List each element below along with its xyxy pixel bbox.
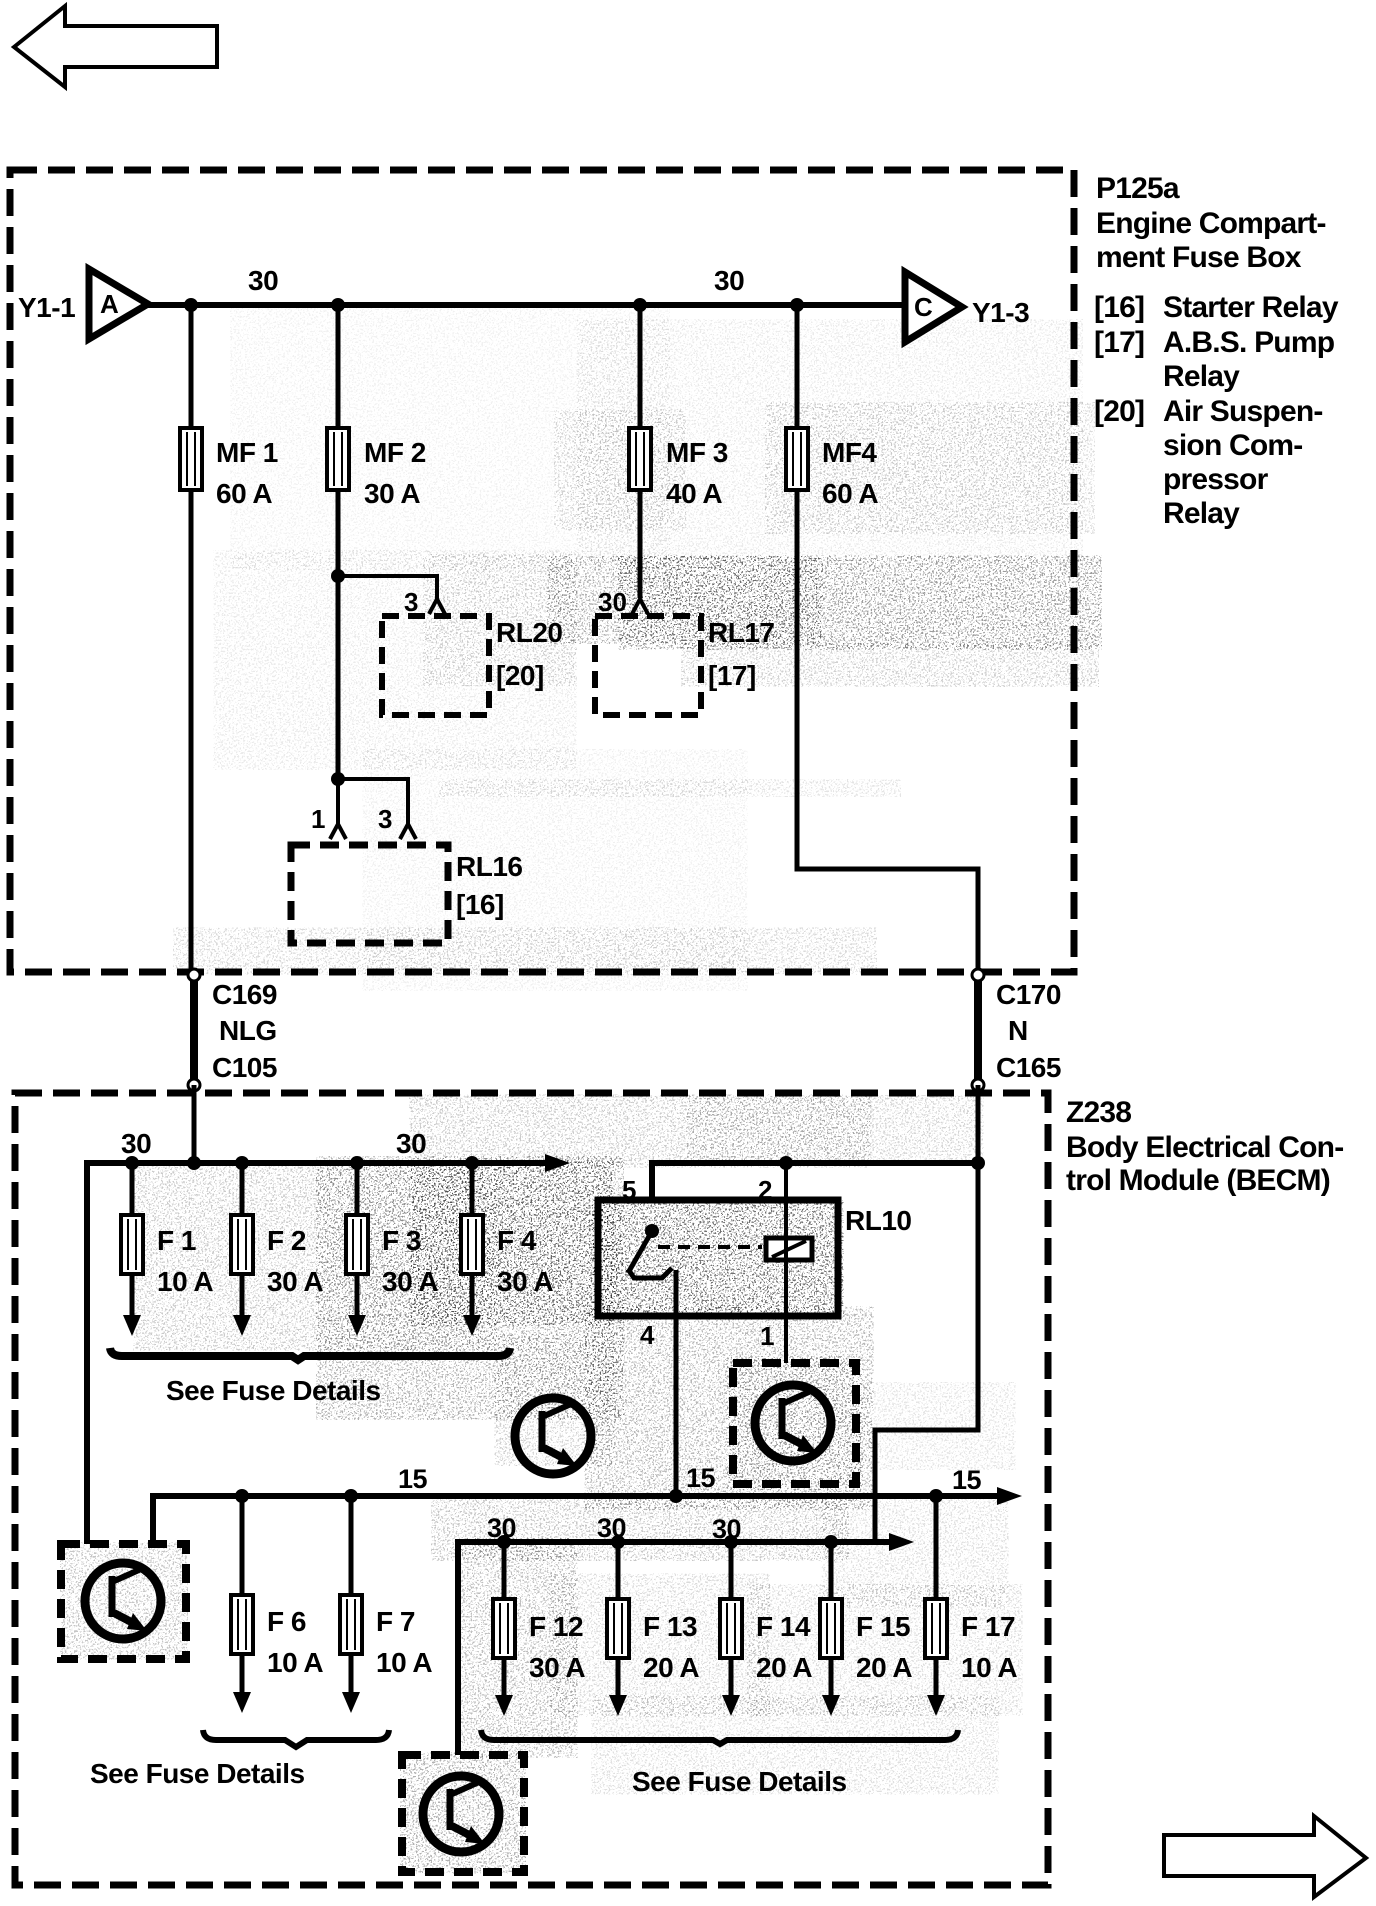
wire MF2 drop [336, 305, 341, 779]
net label 15 [686, 1463, 716, 1493]
svg-text:MF 2: MF 2 [364, 437, 426, 468]
wire fuse F 4 drop [463, 1163, 481, 1336]
svg-text:RL16: RL16 [456, 851, 522, 882]
svg-text:RL10: RL10 [845, 1205, 911, 1236]
svg-text:[20]: [20] [1094, 395, 1144, 428]
svg-text:30: 30 [121, 1128, 151, 1159]
scan noise patches (decorative) [66, 318, 1080, 1868]
svg-text:10 A: 10 A [376, 1647, 432, 1678]
wire bus 15 [153, 1487, 1022, 1544]
fuse F 15 20 A [820, 1599, 842, 1658]
svg-text:30 A: 30 A [529, 1652, 585, 1683]
svg-text:NLG: NLG [219, 1015, 277, 1046]
svg-text:F 14: F 14 [756, 1611, 811, 1642]
net label 30 [712, 1514, 741, 1544]
svg-text:C: C [914, 292, 933, 322]
switch/clock symbol (free) [515, 1398, 591, 1474]
wire C165 to 30 sub-bus [875, 1163, 978, 1542]
svg-text:See Fuse Details: See Fuse Details [166, 1375, 381, 1406]
module box Z238 (BECM) [15, 1093, 1048, 1885]
svg-text:3: 3 [378, 804, 392, 834]
svg-text:10 A: 10 A [961, 1652, 1017, 1683]
wire RL10 pin2 [784, 1163, 788, 1260]
svg-text:20 A: 20 A [756, 1652, 812, 1683]
svg-text:30: 30 [712, 1514, 741, 1544]
switch/clock symbol box (bottom) [402, 1755, 524, 1872]
svg-text:[17]: [17] [708, 660, 756, 691]
page-nav arrow (next page) [1164, 1816, 1366, 1897]
svg-text:C105: C105 [212, 1052, 277, 1083]
page-nav arrow (prev page) [14, 6, 217, 87]
fuse F 13 20 A [607, 1599, 629, 1658]
fuse MF2 30A [327, 428, 349, 490]
fuse F 6 10 A [231, 1595, 253, 1654]
svg-text:N: N [1008, 1015, 1028, 1046]
svg-text:Relay: Relay [1163, 497, 1240, 530]
svg-text:10 A: 10 A [267, 1647, 323, 1678]
connector Y1-1 (triangle A) [18, 269, 148, 339]
wire C105 to bus [192, 1085, 197, 1163]
svg-text:Body Electrical Con-: Body Electrical Con- [1066, 1131, 1343, 1164]
svg-text:Y1-1: Y1-1 [18, 292, 75, 323]
relay RL17 [17] [595, 616, 774, 715]
pin 3 of RL16 [378, 804, 416, 839]
fuse F 7 10 A [340, 1595, 362, 1654]
svg-text:pressor: pressor [1163, 463, 1269, 496]
svg-text:1: 1 [760, 1321, 774, 1351]
relay RL10 [598, 1200, 911, 1316]
svg-text:Relay: Relay [1163, 360, 1240, 393]
label See Fuse Details (F12-F17) [632, 1766, 847, 1797]
connector C169/C105 [188, 969, 277, 1091]
pin 2 of RL10 [758, 1175, 772, 1205]
fuse F 2 30 A [231, 1215, 253, 1274]
net label 30 [396, 1128, 426, 1159]
wire MF2 branch to RL16 pins [331, 772, 408, 824]
wire MF4 drop and route to C170 [797, 305, 978, 975]
fuse F 4 30 A [461, 1215, 483, 1274]
module box P125a (Engine Compartment Fuse Box) [10, 170, 1074, 972]
fuse F 1 10 A [121, 1215, 143, 1274]
svg-text:40 A: 40 A [666, 478, 722, 509]
svg-text:30: 30 [248, 265, 278, 296]
svg-text:[16]: [16] [1094, 291, 1144, 324]
svg-text:20 A: 20 A [643, 1652, 699, 1683]
pin 1 of RL16 [311, 804, 346, 839]
svg-text:30 A: 30 A [382, 1266, 438, 1297]
svg-text:Z238: Z238 [1066, 1096, 1131, 1129]
svg-text:20 A: 20 A [856, 1652, 912, 1683]
svg-text:15: 15 [398, 1464, 428, 1494]
svg-text:MF 3: MF 3 [666, 437, 728, 468]
wire fuse F 15 drop [822, 1542, 840, 1716]
pin 1 of RL10 [760, 1321, 774, 1351]
net label 30 [121, 1128, 151, 1159]
svg-text:15: 15 [952, 1465, 982, 1495]
net label 30 [487, 1513, 516, 1543]
svg-text:F 12: F 12 [529, 1611, 583, 1642]
svg-text:1: 1 [311, 804, 325, 834]
wire MF1 drop [189, 305, 194, 975]
bracket fuse group F6-F7 [203, 1730, 389, 1747]
switch/clock symbol box (RL10 pin1) [733, 1363, 856, 1484]
net label 15 [952, 1465, 982, 1495]
svg-text:A: A [100, 289, 119, 319]
svg-text:30 A: 30 A [364, 478, 420, 509]
wire MF2 to RL20 pin 3 [331, 569, 437, 600]
connector C170/C165 [972, 969, 1061, 1091]
wire RL10 pin1 [784, 1260, 788, 1363]
wire MF3 drop [638, 305, 643, 598]
fuse F 12 30 A [493, 1599, 515, 1658]
wire C165 down [976, 1085, 981, 1163]
svg-text:C170: C170 [996, 979, 1061, 1010]
fuse MF4 60A [786, 428, 808, 490]
bracket fuse group F12-F17 [481, 1730, 958, 1744]
svg-text:C169: C169 [212, 979, 277, 1010]
label P125a legend [1094, 172, 1339, 530]
svg-text:4: 4 [640, 1320, 655, 1350]
bracket fuse group F1-F4 [110, 1348, 510, 1360]
svg-text:C165: C165 [996, 1052, 1061, 1083]
svg-text:See Fuse Details: See Fuse Details [632, 1766, 847, 1797]
svg-text:[16]: [16] [456, 889, 504, 920]
fuse MF3 40A [629, 428, 651, 490]
net label 30 (left) [248, 265, 278, 296]
relay RL20 [20] [382, 616, 562, 715]
label See Fuse Details (F1-F4) [166, 1375, 381, 1406]
svg-text:60 A: 60 A [216, 478, 272, 509]
pin 3 of RL20 [404, 587, 445, 617]
wire fuse F 3 drop [348, 1163, 366, 1336]
svg-text:F 17: F 17 [961, 1611, 1015, 1642]
wire RL10 feed from C165 [652, 1156, 985, 1200]
net label 30 (right) [714, 265, 744, 296]
svg-text:F 15: F 15 [856, 1611, 910, 1642]
svg-text:30: 30 [597, 1513, 626, 1543]
svg-text:30 A: 30 A [267, 1266, 323, 1297]
pin 30 of RL17 [598, 587, 648, 617]
svg-text:F 2: F 2 [267, 1225, 306, 1256]
svg-text:Air Suspen-: Air Suspen- [1163, 395, 1323, 428]
svg-text:RL17: RL17 [708, 617, 774, 648]
relay RL16 [16] [291, 845, 522, 943]
svg-text:[20]: [20] [496, 660, 544, 691]
fuse MF1 60A [180, 428, 202, 490]
wire fuse F 7 drop [342, 1496, 360, 1713]
fuse F 14 20 A [720, 1599, 742, 1658]
svg-text:30: 30 [714, 265, 744, 296]
wire fuse F 2 drop [233, 1163, 251, 1336]
svg-text:F 6: F 6 [267, 1606, 306, 1637]
svg-text:RL20: RL20 [496, 617, 562, 648]
label See Fuse Details (F6-F7) [90, 1758, 305, 1789]
wire bus 30 (P125a) [148, 298, 905, 312]
net label 15 [398, 1464, 428, 1494]
RL10 coil [766, 1238, 812, 1260]
svg-text:30: 30 [396, 1128, 426, 1159]
svg-text:F 13: F 13 [643, 1611, 697, 1642]
svg-text:Y1-3: Y1-3 [972, 297, 1029, 328]
RL10 coil link (dashed) [658, 1245, 762, 1249]
label Z238 legend [1066, 1096, 1343, 1197]
svg-text:F 3: F 3 [382, 1225, 421, 1256]
wire fuse F 17 drop [927, 1496, 945, 1716]
svg-text:10 A: 10 A [157, 1266, 213, 1297]
svg-text:3: 3 [404, 587, 418, 617]
pin 5 of RL10 [622, 1175, 636, 1205]
svg-text:A.B.S. Pump: A.B.S. Pump [1163, 326, 1335, 359]
svg-text:F 7: F 7 [376, 1606, 415, 1637]
wire fuse F 14 drop [722, 1542, 740, 1716]
wire bus 30 (Z238) [87, 1154, 570, 1544]
svg-text:sion Com-: sion Com- [1163, 429, 1302, 462]
wire fuse F 12 drop [495, 1542, 513, 1716]
switch/clock symbol box (left) [61, 1544, 186, 1659]
svg-text:See Fuse Details: See Fuse Details [90, 1758, 305, 1789]
wire fuse F 13 drop [609, 1542, 627, 1716]
pin 4 of RL10 [640, 1320, 655, 1350]
fuse F 3 30 A [346, 1215, 368, 1274]
svg-text:P125a: P125a [1096, 172, 1180, 205]
svg-text:Starter Relay: Starter Relay [1163, 291, 1339, 324]
svg-text:ment Fuse Box: ment Fuse Box [1096, 241, 1302, 274]
svg-text:60 A: 60 A [822, 478, 878, 509]
svg-text:trol Module (BECM): trol Module (BECM) [1066, 1164, 1330, 1197]
svg-text:F 4: F 4 [497, 1225, 537, 1256]
wire RL10 pin4 to 15 bus [674, 1270, 679, 1496]
svg-text:MF4: MF4 [822, 437, 877, 468]
svg-text:30 A: 30 A [497, 1266, 553, 1297]
svg-text:15: 15 [686, 1463, 716, 1493]
svg-text:[17]: [17] [1094, 326, 1144, 359]
connector Y1-3 (triangle C) [905, 272, 1029, 342]
wire bus 30 (sub) [458, 1533, 914, 1755]
svg-text:F 1: F 1 [157, 1225, 196, 1256]
svg-text:30: 30 [598, 587, 627, 617]
net label 30 [597, 1513, 626, 1543]
svg-text:MF 1: MF 1 [216, 437, 278, 468]
RL10 switch contact [628, 1224, 672, 1278]
svg-text:Engine Compart-: Engine Compart- [1096, 207, 1326, 240]
wire fuse F 1 drop [123, 1163, 141, 1336]
svg-text:30: 30 [487, 1513, 516, 1543]
wire fuse F 6 drop [233, 1496, 251, 1713]
fuse F 17 10 A [925, 1599, 947, 1658]
